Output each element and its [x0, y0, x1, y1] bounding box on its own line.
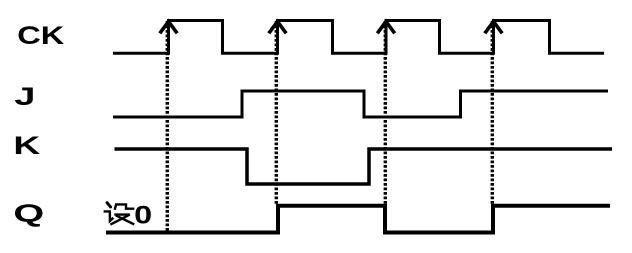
讠 horizontal-fold-lift stroke [104, 211, 114, 221]
svg-text:K: K [13, 132, 40, 160]
svg-text:CK: CK [17, 22, 64, 50]
几 top and bent stroke [116, 204, 135, 208]
clock edge 3 arrowhead [377, 22, 394, 34]
waveform Q [106, 206, 610, 233]
annotation 设0 : hanzi 设 drawn as strokes [104, 203, 135, 225]
clock edge 3 dotted line [384, 21, 387, 205]
waveform J [113, 91, 608, 117]
又 horizontal-bend stroke [110, 215, 129, 225]
clock edge 1 arrowhead [160, 22, 177, 34]
clock edge 4 dotted line [491, 21, 494, 205]
waveform K [115, 149, 613, 184]
又 falling right stroke [116, 215, 134, 224]
clock edge 4 arrowhead [485, 22, 502, 34]
几 left stroke [115, 204, 117, 210]
svg-text:Q: Q [13, 200, 44, 228]
waveform CK [113, 21, 604, 54]
svg-text:0: 0 [134, 202, 152, 230]
clock edge 2 dotted line [275, 21, 278, 205]
讠 dot stroke [107, 203, 111, 207]
svg-text:J: J [14, 83, 35, 111]
clock edge 2 arrowhead [269, 22, 286, 34]
clock edge 1 dotted line [166, 21, 169, 231]
